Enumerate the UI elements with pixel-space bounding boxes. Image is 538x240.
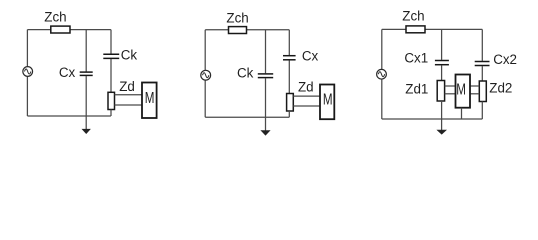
svg-text:Ck: Ck bbox=[121, 48, 138, 63]
svg-text:Zd: Zd bbox=[119, 79, 135, 94]
capacitor Cx c2 bbox=[283, 56, 296, 60]
wire c3 motor lead left upper bbox=[445, 85, 456, 87]
svg-text:Cx: Cx bbox=[59, 65, 76, 80]
svg-text:Zch: Zch bbox=[226, 10, 248, 25]
svg-text:Zd2: Zd2 bbox=[489, 81, 512, 96]
wire c2 motor lead upper bbox=[293, 95, 320, 97]
capacitor Ck c2 bbox=[258, 74, 273, 78]
wire c1 middle branch upper bbox=[85, 30, 87, 72]
wire c3 branch Cx2 lower bbox=[481, 102, 483, 120]
svg-text:Cx1: Cx1 bbox=[404, 51, 428, 66]
wire c2 motor lead lower bbox=[293, 105, 320, 107]
capacitor Cx2 c3 bbox=[475, 62, 490, 66]
wire c3 motor lead right lower bbox=[470, 93, 479, 95]
capacitor Ck c1 bbox=[103, 54, 119, 58]
motor M c1 bbox=[142, 83, 157, 119]
wire c3 branch Cx1 upper bbox=[441, 29, 443, 60]
wire c3 motor stem bbox=[461, 108, 463, 119]
wire c1 bottom bbox=[27, 115, 111, 117]
wire c3 branch Cx1 lower bbox=[441, 101, 443, 131]
wire c3 top bbox=[382, 28, 483, 30]
impedance Zch c3 bbox=[406, 26, 425, 33]
svg-text:Zch: Zch bbox=[44, 9, 66, 24]
wire c2 right branch middle bbox=[288, 60, 290, 93]
svg-text:M: M bbox=[145, 90, 155, 107]
svg-text:Zch: Zch bbox=[402, 9, 424, 24]
impedance Zd c1 bbox=[108, 92, 115, 109]
ground c1 bbox=[82, 129, 90, 133]
wire c3 bottom bbox=[382, 118, 483, 120]
capacitor Cx1 c3 bbox=[435, 61, 449, 65]
svg-text:Cx2: Cx2 bbox=[493, 52, 517, 67]
AC source G1 c1 bbox=[23, 67, 33, 77]
capacitor Cx c1 bbox=[80, 72, 93, 75]
impedance Zd c2 bbox=[287, 94, 294, 112]
wire c1 left bbox=[26, 30, 28, 116]
AC source G3 c3 bbox=[377, 69, 387, 79]
svg-text:M: M bbox=[456, 82, 466, 99]
wire c1 motor lead lower bbox=[115, 104, 143, 106]
wire c1 right branch middle bbox=[110, 59, 112, 92]
wire c3 motor lead right upper bbox=[470, 85, 479, 87]
ground c2 bbox=[261, 131, 270, 136]
wire c2 bottom bbox=[205, 116, 289, 118]
svg-text:Zd: Zd bbox=[298, 79, 314, 94]
svg-text:Zd1: Zd1 bbox=[405, 82, 428, 97]
impedance Zch c1 bbox=[51, 26, 70, 33]
wire c1 top bbox=[27, 29, 111, 31]
wire c1 right branch lower bbox=[110, 110, 112, 117]
wire c2 middle branch lower bbox=[265, 78, 267, 131]
wire c1 right branch upper bbox=[110, 30, 112, 54]
svg-text:Ck: Ck bbox=[237, 65, 254, 80]
wire c2 left bbox=[204, 30, 206, 117]
wire c2 right branch lower bbox=[288, 111, 290, 117]
motor M c3 bbox=[456, 75, 471, 108]
wire c3 motor lead left lower bbox=[445, 93, 456, 95]
wire c2 right branch upper bbox=[288, 30, 290, 55]
svg-text:M: M bbox=[323, 92, 333, 109]
wire c2 middle branch upper bbox=[265, 30, 267, 74]
impedance Zd1 c3 bbox=[437, 81, 444, 102]
impedance Zch c2 bbox=[229, 27, 247, 34]
wire c3 branch Cx2 middle bbox=[481, 66, 483, 81]
ground c3 bbox=[437, 130, 446, 134]
wire c2 top bbox=[205, 29, 289, 31]
wire c1 middle branch lower bbox=[85, 76, 87, 130]
wire c3 left bbox=[381, 29, 383, 119]
AC source G2 c2 bbox=[201, 70, 211, 80]
wire c3 branch Cx1 middle bbox=[441, 65, 443, 80]
svg-text:Cx: Cx bbox=[302, 49, 319, 64]
impedance Zd2 c3 bbox=[479, 81, 486, 102]
wire c1 motor lead upper bbox=[115, 94, 143, 96]
motor M c2 bbox=[320, 85, 334, 120]
wire c3 branch Cx2 upper bbox=[481, 29, 483, 61]
